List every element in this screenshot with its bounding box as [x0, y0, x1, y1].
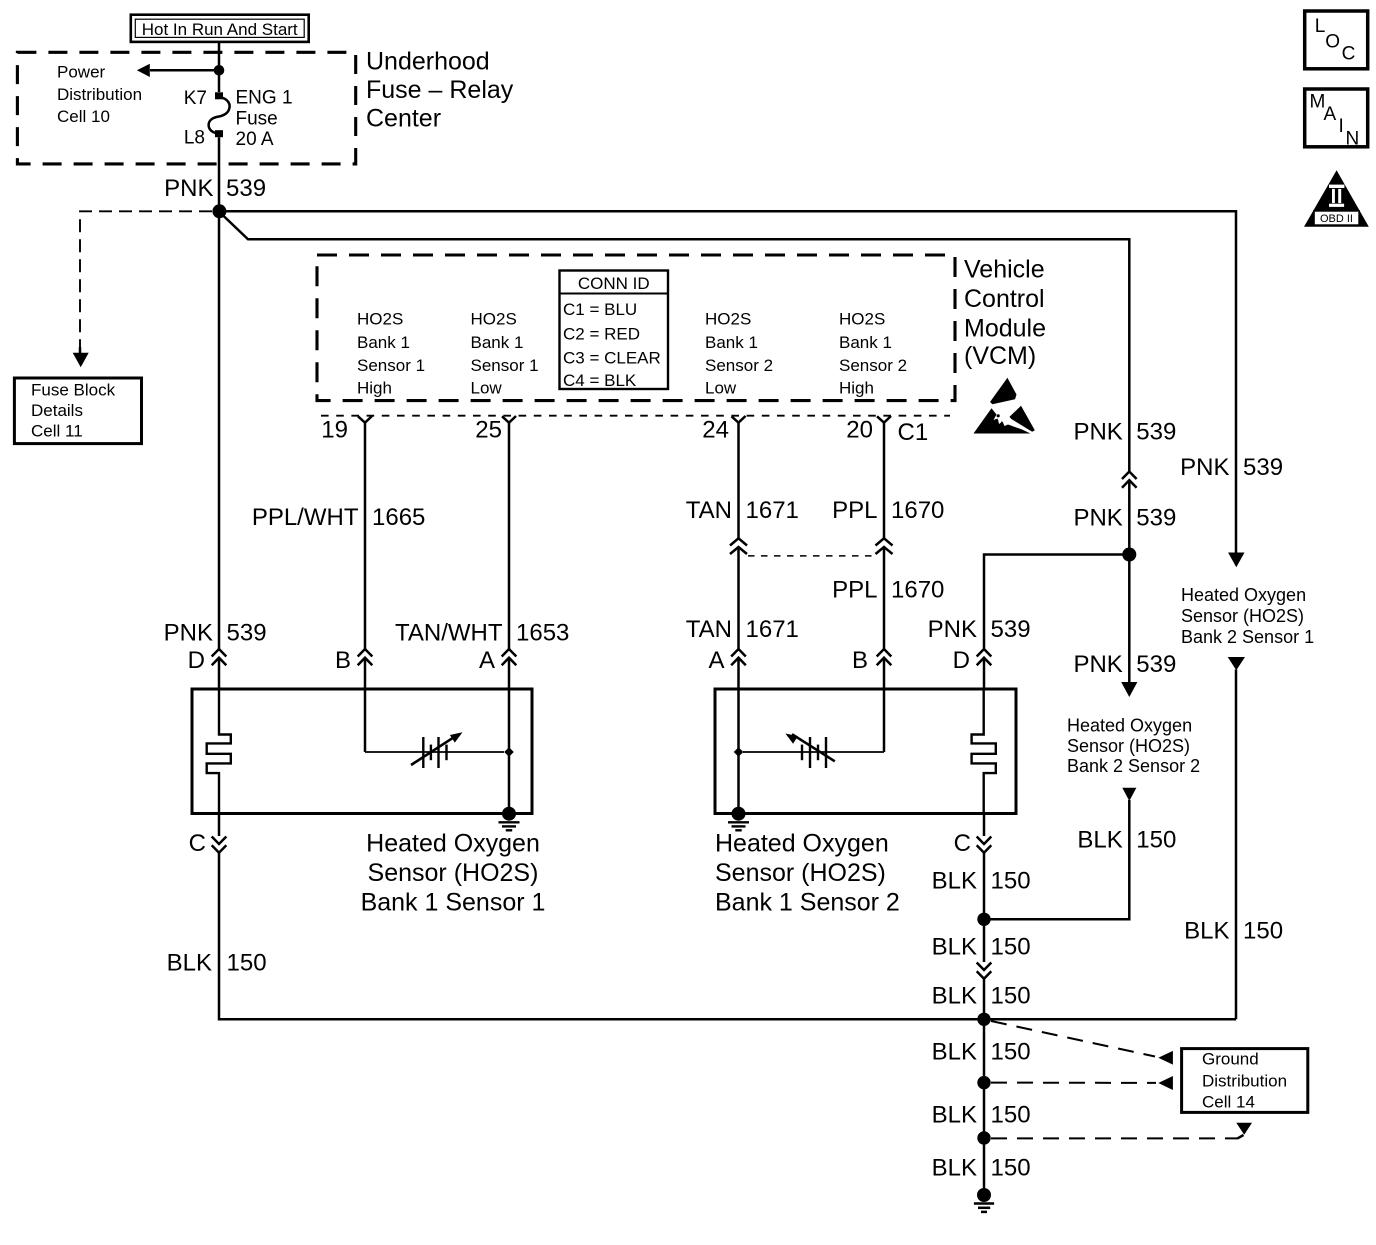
label Underhood Fuse-Relay Center [366, 48, 514, 133]
svg-text:HO2S: HO2S [471, 310, 517, 329]
arrow to HO2S Bank 2 Sensor 2 [1073, 651, 1176, 678]
wire fuse to junction [218, 137, 221, 206]
svg-text:1670: 1670 [891, 577, 944, 604]
node junction PNK539 branch [1122, 548, 1136, 562]
svg-text:1671: 1671 [746, 497, 799, 524]
svg-text:25: 25 [475, 417, 502, 444]
svg-text:Sensor (HO2S): Sensor (HO2S) [1067, 736, 1190, 756]
legend box CONN ID [560, 271, 669, 391]
svg-text:24: 24 [702, 417, 729, 444]
svg-text:19: 19 [321, 417, 348, 444]
wire BLK 150 from B2S1 (far right) [1228, 657, 1245, 670]
svg-text:Module: Module [964, 315, 1046, 343]
wire BLK 150 (left) [219, 853, 1236, 1020]
svg-text:Cell 10: Cell 10 [57, 107, 110, 126]
sense element bars (B1S1) [423, 737, 446, 768]
svg-text:High: High [357, 379, 392, 398]
wire PNK 539 (left, down to sensor D) [218, 211, 221, 649]
svg-text:Sensor 2: Sensor 2 [839, 356, 907, 375]
wire PPL/WHT 1665 (pin 19 to sensor B) [364, 423, 367, 649]
svg-text:C3 = CLEAR: C3 = CLEAR [563, 349, 661, 368]
connector A (HO2S B1S2) [731, 649, 746, 665]
in-line connector on PNK 539 [1122, 472, 1137, 488]
svg-text:N: N [1346, 129, 1360, 150]
svg-text:PPL: PPL [832, 577, 877, 604]
svg-text:150: 150 [991, 1155, 1031, 1182]
svg-text:539: 539 [1136, 419, 1176, 446]
value label ENG 1 Fuse 20 A [236, 88, 293, 151]
svg-text:Ground: Ground [1202, 1050, 1259, 1069]
svg-text:20: 20 [846, 417, 873, 444]
pin function label HO2S Bank 1 Sensor 1 Low [471, 310, 539, 398]
OBD II symbol [1304, 170, 1369, 227]
wire PNK 539 junction to far right then down [226, 211, 1236, 553]
svg-text:Bank 2 Sensor 2: Bank 2 Sensor 2 [1067, 756, 1200, 776]
svg-text:Sensor (HO2S): Sensor (HO2S) [1181, 606, 1304, 626]
svg-text:ENG 1: ENG 1 [236, 88, 293, 109]
node junction BLK (main bus) [977, 1013, 990, 1026]
svg-text:Bank 1 Sensor 2: Bank 1 Sensor 2 [715, 889, 900, 917]
pin function label HO2S Bank 1 Sensor 2 High [839, 310, 907, 398]
svg-text:Bank 1 Sensor 1: Bank 1 Sensor 1 [361, 889, 546, 917]
node junction BLK (to B2S2 wire) [977, 913, 990, 926]
wire TAN 1671 (pin 24, upper) [737, 423, 740, 539]
svg-text:PNK: PNK [1073, 419, 1122, 446]
fuse ENG 1 element (S-curve) [209, 97, 230, 134]
svg-text:Control: Control [964, 285, 1045, 313]
sense element wire (B1S1) [364, 689, 367, 752]
fuse ENG 1 terminal K7 [215, 92, 223, 99]
svg-text:150: 150 [991, 868, 1031, 895]
wire BLK 150 chain [983, 853, 986, 962]
svg-text:BLK: BLK [932, 1102, 977, 1129]
svg-text:Bank 1: Bank 1 [471, 333, 524, 352]
connector C (HO2S B1S2) [983, 814, 986, 837]
svg-text:A: A [1324, 104, 1337, 125]
svg-text:Details: Details [31, 401, 83, 420]
svg-text:Power: Power [57, 63, 106, 82]
splice connector on PPL wire [876, 538, 893, 554]
pin 20 fork [877, 416, 891, 423]
sensor ground wire (B1S2) [737, 689, 740, 814]
svg-text:1665: 1665 [372, 504, 425, 531]
svg-text:1671: 1671 [746, 616, 799, 643]
variable arrow (B1S1) [411, 738, 453, 765]
connector A (HO2S B1S1) [502, 649, 517, 665]
svg-text:Fuse Block: Fuse Block [31, 381, 116, 400]
in-line connector on BLK 150 [977, 963, 992, 979]
grid code box LOC [1305, 11, 1368, 69]
svg-text:BLK: BLK [932, 868, 977, 895]
junction diamond at A wire (B1S1) [504, 747, 514, 756]
svg-text:150: 150 [1243, 918, 1283, 945]
svg-text:Sensor (HO2S): Sensor (HO2S) [368, 859, 539, 887]
svg-text:D: D [953, 647, 970, 674]
pin 19 fork [358, 416, 372, 423]
svg-text:150: 150 [227, 950, 267, 977]
connector D (HO2S B1S1) [212, 649, 227, 665]
svg-text:HO2S: HO2S [839, 310, 885, 329]
svg-text:C2 = RED: C2 = RED [563, 325, 640, 344]
svg-text:C: C [1342, 43, 1356, 64]
connector B (HO2S B1S2) [877, 649, 892, 665]
svg-text:BLK: BLK [932, 1039, 977, 1066]
svg-text:L: L [1315, 16, 1326, 37]
svg-text:C4 = BLK: C4 = BLK [563, 371, 637, 390]
caption Heated Oxygen Sensor (HO2S) Bank 1 Sensor 1 [361, 830, 546, 917]
node junction BLK (ground ref 2) [977, 1076, 990, 1089]
sensor ground wire (B1S1) [508, 689, 511, 814]
svg-text:PPL: PPL [832, 497, 877, 524]
svg-text:539: 539 [226, 175, 266, 202]
svg-text:Sensor 2: Sensor 2 [705, 356, 773, 375]
pin 25 fork [502, 416, 516, 423]
svg-text:Bank 1: Bank 1 [705, 333, 758, 352]
svg-text:(VCM): (VCM) [964, 342, 1036, 370]
svg-text:Fuse: Fuse [236, 109, 278, 130]
wire BLK 150 from B2S2 [1122, 788, 1136, 801]
svg-text:Bank 2 Sensor 1: Bank 2 Sensor 1 [1181, 627, 1314, 647]
svg-text:150: 150 [991, 1039, 1031, 1066]
ground (B1S1) [499, 822, 520, 830]
svg-text:Bank 1: Bank 1 [839, 333, 892, 352]
svg-text:BLK: BLK [932, 934, 977, 961]
svg-text:HO2S: HO2S [705, 310, 751, 329]
dashed ref arrow 2 to Ground Distribution [991, 1082, 1156, 1084]
wire TAN 1671 (lower, to sensor A) [737, 547, 740, 649]
node at arrow branch [214, 65, 225, 76]
svg-text:High: High [839, 379, 874, 398]
svg-text:20 A: 20 A [236, 129, 274, 150]
svg-text:Low: Low [471, 379, 503, 398]
reference box Ground Distribution Cell 14 [1182, 1049, 1308, 1113]
svg-text:Cell 14: Cell 14 [1202, 1093, 1255, 1112]
svg-text:Vehicle: Vehicle [964, 256, 1045, 284]
power source box "Hot In Run And Start" [131, 15, 309, 42]
variable arrow (B1S2) [792, 734, 835, 761]
wire branch to sensor D (B1S2) [984, 555, 1129, 650]
svg-text:BLK: BLK [1077, 827, 1122, 854]
caption Heated Oxygen Sensor (HO2S) Bank 1 Sensor 2 [715, 830, 900, 917]
svg-text:Center: Center [366, 105, 441, 133]
svg-text:539: 539 [1136, 651, 1176, 678]
svg-text:Heated Oxygen: Heated Oxygen [715, 830, 889, 858]
HO2S Bank 1 Sensor 2 box [715, 689, 1016, 814]
svg-text:Sensor 1: Sensor 1 [471, 356, 539, 375]
svg-text:Sensor 1: Sensor 1 [357, 356, 425, 375]
heater element (B1S2) [972, 689, 996, 814]
ground (B1S2) [728, 822, 749, 830]
svg-text:Heated Oxygen: Heated Oxygen [366, 830, 540, 858]
wire PPL 1670 (lower, to sensor B) [883, 547, 886, 649]
svg-text:TAN/WHT: TAN/WHT [395, 620, 503, 647]
svg-text:150: 150 [991, 1102, 1031, 1129]
svg-text:Heated Oxygen: Heated Oxygen [1181, 585, 1306, 605]
label Heated Oxygen Sensor (HO2S) Bank 2 Sensor 1 [1181, 585, 1314, 647]
svg-text:I: I [1339, 116, 1344, 137]
svg-text:B: B [852, 647, 868, 674]
svg-text:A: A [708, 647, 724, 674]
wire dashed branch to Fuse Block Details [80, 211, 212, 349]
svg-text:Hot In Run And Start: Hot In Run And Start [142, 20, 298, 39]
ground G103 (bottom) [977, 1188, 991, 1202]
label Power Distribution Cell 10 [57, 63, 142, 126]
svg-text:1670: 1670 [891, 497, 944, 524]
node junction BLK (ground ref 3) [977, 1131, 990, 1144]
svg-text:539: 539 [991, 616, 1031, 643]
wire from Hot box down to fuse [218, 42, 221, 92]
Underhood Fuse-Relay Center dashed box [17, 52, 355, 164]
svg-text:B: B [335, 647, 351, 674]
svg-text:BLK: BLK [932, 983, 977, 1010]
wire label PNK 539 (top) [164, 175, 266, 202]
svg-text:150: 150 [991, 934, 1031, 961]
svg-text:Heated Oxygen: Heated Oxygen [1067, 716, 1192, 736]
label Heated Oxygen Sensor (HO2S) Bank 2 Sensor 2 [1067, 716, 1200, 777]
svg-text:C: C [189, 830, 206, 857]
svg-text:C1: C1 [898, 419, 929, 446]
wire PPL 1670 (pin 20, upper) [883, 423, 886, 539]
connector D (HO2S B1S2) [977, 649, 992, 665]
wire PNK 539 (far right) labels and arrow [1180, 454, 1283, 481]
svg-text:OBD II: OBD II [1320, 213, 1353, 225]
connector B (HO2S B1S1) [358, 649, 373, 665]
sense element wire (B1S2) [743, 751, 884, 753]
wire PNK 539 diagonal branch to x=1129 [221, 214, 1129, 472]
svg-text:TAN: TAN [686, 616, 732, 643]
svg-text:539: 539 [1136, 505, 1176, 532]
pin 24 fork [732, 416, 746, 423]
svg-text:PPL/WHT: PPL/WHT [252, 504, 359, 531]
svg-text:A: A [479, 647, 495, 674]
svg-text:C: C [954, 830, 971, 857]
Vehicle Control Module dashed box [317, 255, 955, 401]
reference box Fuse Block Details Cell 11 [14, 378, 141, 444]
svg-text:Distribution: Distribution [1202, 1072, 1287, 1091]
junction diamond at A wire (B1S2) [734, 747, 744, 756]
svg-text:150: 150 [1136, 827, 1176, 854]
pin function label HO2S Bank 1 Sensor 2 Low [705, 310, 773, 398]
svg-text:PNK: PNK [1073, 505, 1122, 532]
svg-text:PNK: PNK [1180, 454, 1229, 481]
svg-text:Underhood: Underhood [366, 48, 490, 76]
svg-text:D: D [188, 647, 205, 674]
svg-text:PNK: PNK [164, 175, 213, 202]
sense element bars (B1S2) [802, 737, 826, 768]
ESD sensitivity symbol [974, 378, 1035, 434]
svg-text:Fuse – Relay: Fuse – Relay [366, 76, 514, 104]
svg-text:Distribution: Distribution [57, 85, 142, 104]
wire PNK 539 (x=1129 vertical) [1073, 419, 1176, 446]
dashed ref arrow 3 to Ground Distribution [991, 1137, 1238, 1139]
svg-text:Low: Low [705, 379, 737, 398]
svg-text:539: 539 [1243, 454, 1283, 481]
dashed ref arrow 1 to Ground Distribution [991, 1021, 1155, 1057]
splice connector on TAN wire [730, 538, 747, 554]
wire TAN/WHT 1653 (pin 25 to sensor A) [508, 423, 511, 649]
svg-text:Cell 11: Cell 11 [31, 422, 83, 441]
svg-text:K7: K7 [184, 88, 207, 109]
svg-text:PNK: PNK [164, 620, 213, 647]
svg-text:TAN: TAN [686, 497, 732, 524]
svg-text:PNK: PNK [928, 616, 977, 643]
svg-text:Bank 1: Bank 1 [357, 333, 410, 352]
grid code box MAIN [1305, 89, 1368, 150]
svg-text:Sensor (HO2S): Sensor (HO2S) [715, 859, 886, 887]
fuse ENG 1 terminal L8 [215, 130, 223, 137]
node junction PNK 539 [212, 204, 226, 218]
svg-text:150: 150 [991, 983, 1031, 1010]
svg-text:BLK: BLK [932, 1155, 977, 1182]
splice dashed link [748, 555, 875, 557]
svg-text:O: O [1325, 31, 1340, 52]
svg-text:C1 = BLU: C1 = BLU [563, 300, 637, 319]
wire arrow to Power Distribution [150, 69, 219, 72]
VCM connector edge (thin dashed) [321, 415, 950, 417]
connector C (HO2S B1S1) [218, 814, 221, 837]
svg-text:BLK: BLK [167, 950, 212, 977]
svg-text:1653: 1653 [516, 620, 569, 647]
svg-text:HO2S: HO2S [357, 310, 403, 329]
svg-text:PNK: PNK [1073, 651, 1122, 678]
HO2S Bank 1 Sensor 1 box [192, 689, 532, 814]
svg-text:BLK: BLK [1184, 918, 1229, 945]
label Vehicle Control Module (VCM) [964, 256, 1046, 371]
heater element (B1S1) [207, 689, 231, 814]
pin function label HO2S Bank 1 Sensor 1 High [357, 310, 425, 398]
svg-text:L8: L8 [184, 128, 205, 149]
svg-text:CONN ID: CONN ID [578, 274, 650, 293]
svg-text:539: 539 [227, 620, 267, 647]
